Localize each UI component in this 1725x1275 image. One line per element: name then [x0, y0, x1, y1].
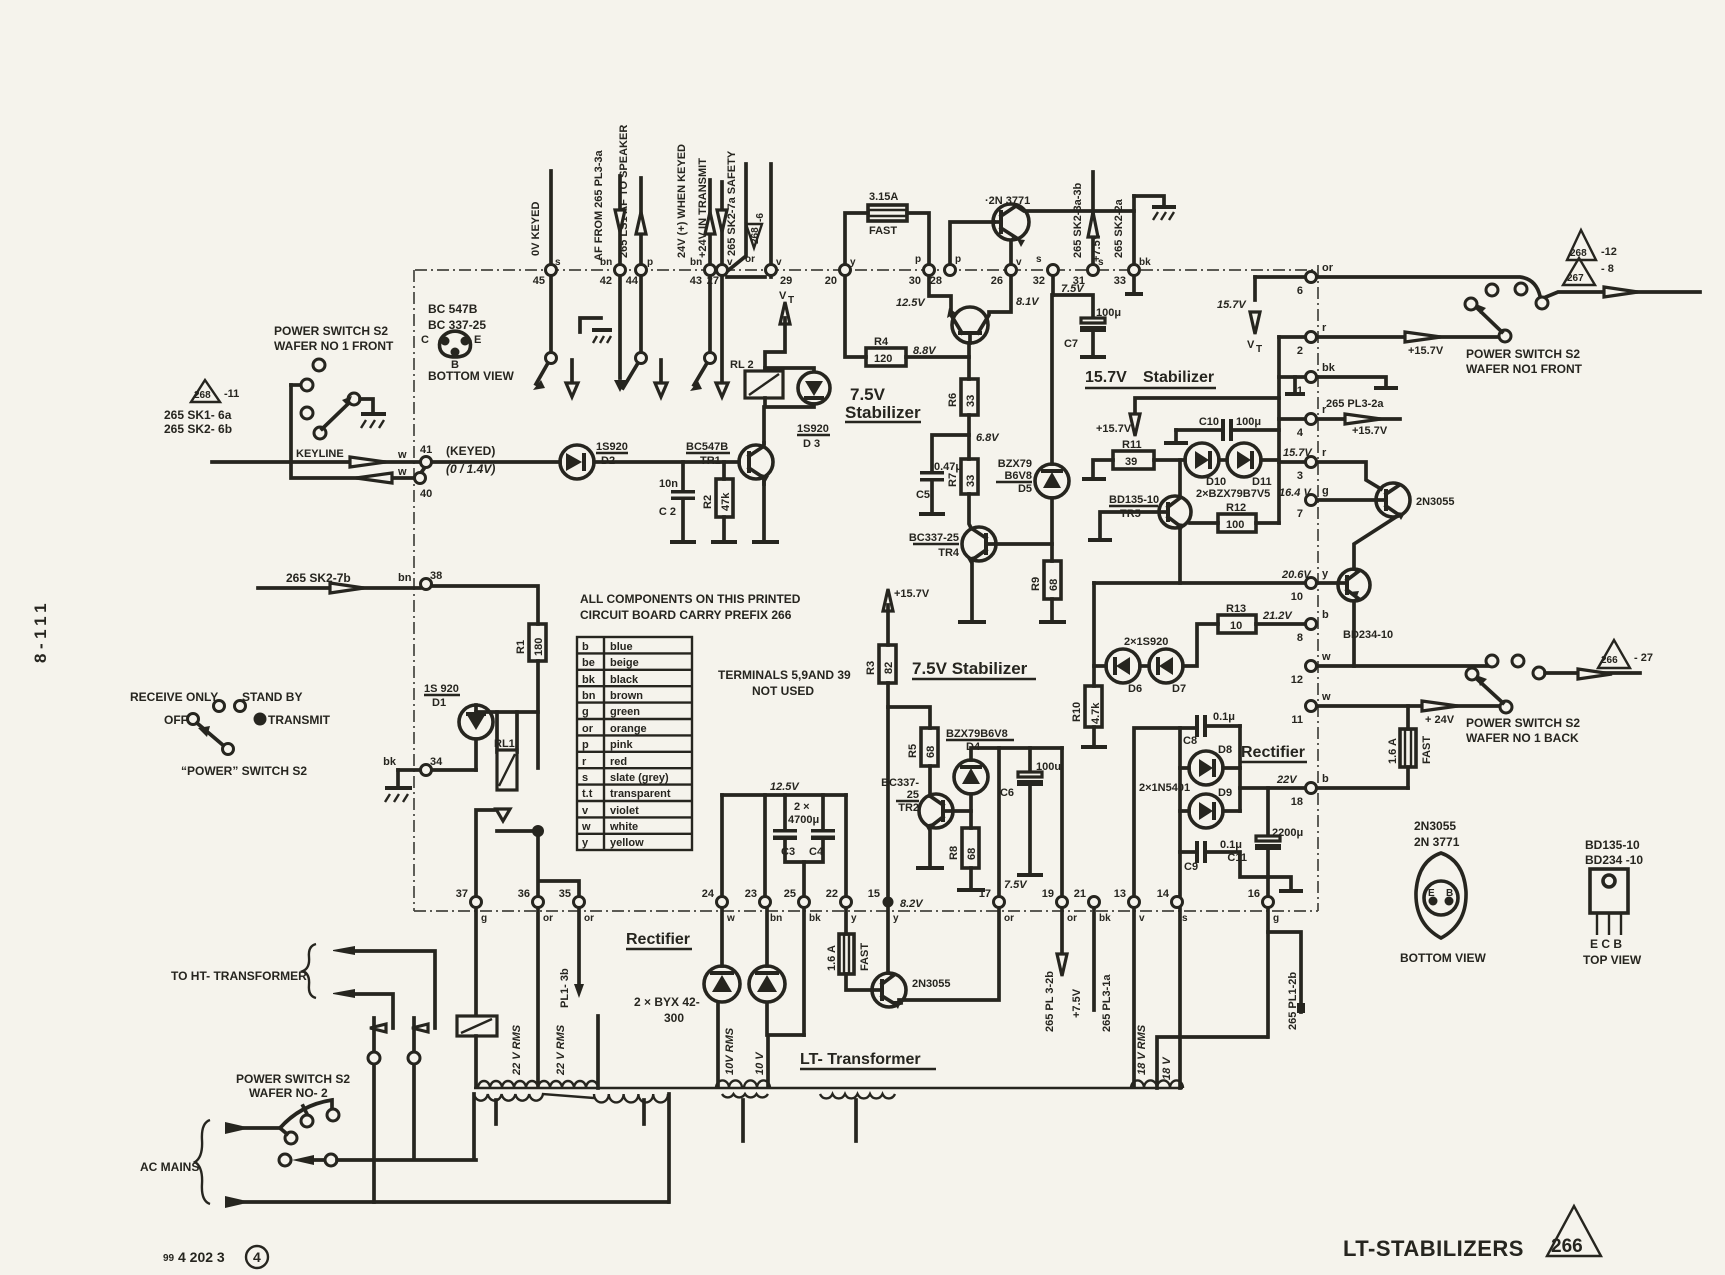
svg-text:R5: R5: [907, 744, 919, 758]
svg-text:E C B: E C B: [1590, 937, 1622, 951]
svg-text:D10: D10: [1206, 476, 1226, 488]
svg-text:bk: bk: [809, 913, 821, 924]
svg-text:3.15A: 3.15A: [869, 191, 898, 203]
svg-text:y: y: [850, 257, 856, 268]
svg-text:WAFER NO 1 BACK: WAFER NO 1 BACK: [1466, 731, 1579, 745]
svg-text:v: v: [582, 805, 589, 817]
svg-text:R1: R1: [515, 640, 527, 654]
svg-text:WAFER NO 1 FRONT: WAFER NO 1 FRONT: [274, 339, 394, 353]
svg-text:R9: R9: [1030, 577, 1042, 591]
svg-text:PL1- 3b: PL1- 3b: [559, 968, 571, 1008]
svg-text:BD135-10: BD135-10: [1109, 494, 1159, 506]
svg-text:7.5V: 7.5V: [1004, 879, 1028, 891]
svg-text:V: V: [1247, 339, 1255, 351]
svg-text:Stabilizer: Stabilizer: [845, 403, 921, 422]
svg-text:R10: R10: [1071, 702, 1083, 722]
svg-text:TR2: TR2: [898, 802, 919, 814]
svg-text:beige: beige: [610, 657, 639, 669]
svg-text:w: w: [1321, 691, 1331, 703]
svg-text:bk: bk: [1139, 257, 1151, 268]
svg-text:26: 26: [991, 275, 1003, 287]
svg-text:265 SK1- 6a: 265 SK1- 6a: [164, 408, 232, 422]
svg-text:265 PL3-1a: 265 PL3-1a: [1101, 974, 1113, 1032]
svg-text:23: 23: [745, 888, 757, 900]
svg-text:265 PL3-2a: 265 PL3-2a: [1326, 398, 1384, 410]
svg-text:C9: C9: [1184, 861, 1198, 873]
svg-text:10: 10: [1291, 591, 1303, 603]
svg-text:B6V8: B6V8: [1004, 470, 1032, 482]
svg-text:r: r: [1322, 322, 1327, 334]
svg-text:265 SK2-2a: 265 SK2-2a: [1113, 198, 1125, 258]
svg-text:or: or: [582, 723, 594, 735]
svg-text:or: or: [745, 254, 755, 265]
svg-text:T: T: [1256, 344, 1262, 355]
svg-text:2N3055: 2N3055: [912, 978, 951, 990]
svg-text:19: 19: [1042, 888, 1054, 900]
svg-text:265 SK2-7b: 265 SK2-7b: [286, 571, 351, 585]
svg-text:2N 3771: 2N 3771: [1414, 835, 1460, 849]
svg-text:C7: C7: [1064, 338, 1078, 350]
svg-text:25: 25: [907, 789, 919, 801]
svg-text:265 PL1-2b: 265 PL1-2b: [1287, 972, 1299, 1030]
svg-text:D11: D11: [1252, 476, 1272, 488]
svg-text:white: white: [609, 821, 638, 833]
svg-text:C10: C10: [1199, 416, 1219, 428]
svg-text:300: 300: [664, 1011, 684, 1025]
svg-text:black: black: [610, 674, 639, 686]
svg-text:v: v: [776, 257, 782, 268]
svg-text:- 8: - 8: [1601, 263, 1614, 275]
svg-text:3: 3: [1297, 470, 1303, 482]
svg-text:POWER SWITCH S2: POWER SWITCH S2: [236, 1072, 350, 1086]
svg-text:20: 20: [825, 275, 837, 287]
svg-text:TR4: TR4: [938, 547, 960, 559]
svg-text:18 V RMS: 18 V RMS: [1136, 1024, 1148, 1075]
svg-text:g: g: [582, 706, 589, 718]
svg-text:brown: brown: [610, 690, 643, 702]
svg-text:17: 17: [979, 888, 991, 900]
svg-text:V: V: [779, 290, 787, 302]
svg-text:266: 266: [1601, 655, 1618, 666]
svg-text:OFF: OFF: [164, 713, 188, 727]
svg-text:TO HT- TRANSFORMER: TO HT- TRANSFORMER: [171, 969, 307, 983]
svg-text:STAND BY: STAND BY: [242, 690, 302, 704]
svg-text:or: or: [1004, 913, 1014, 924]
svg-text:D8: D8: [1218, 744, 1232, 756]
svg-text:+7.5V: +7.5V: [1071, 988, 1083, 1018]
svg-text:32: 32: [1033, 275, 1045, 287]
svg-text:or: or: [584, 913, 594, 924]
svg-text:1S 920: 1S 920: [424, 683, 459, 695]
svg-text:s: s: [1182, 913, 1188, 924]
svg-text:p: p: [647, 257, 653, 268]
svg-text:y: y: [893, 913, 899, 924]
svg-text:2: 2: [1297, 345, 1303, 357]
svg-text:47k: 47k: [720, 492, 732, 511]
svg-text:4.7k: 4.7k: [1090, 702, 1102, 724]
svg-text:68: 68: [1048, 579, 1060, 591]
svg-text:v: v: [727, 257, 733, 268]
svg-text:45: 45: [533, 275, 545, 287]
svg-text:blue: blue: [610, 641, 633, 653]
svg-text:WAFER NO- 2: WAFER NO- 2: [249, 1086, 328, 1100]
svg-text:33: 33: [1114, 275, 1126, 287]
svg-text:0V KEYED: 0V KEYED: [530, 202, 542, 256]
svg-text:or: or: [1322, 262, 1334, 274]
svg-text:BC 547B: BC 547B: [428, 302, 478, 316]
svg-text:red: red: [610, 756, 627, 768]
svg-text:RL1: RL1: [494, 738, 515, 750]
svg-text:violet: violet: [610, 805, 639, 817]
svg-text:w: w: [1321, 651, 1331, 663]
svg-text:- 27: - 27: [1634, 652, 1653, 664]
svg-text:34: 34: [430, 756, 443, 768]
svg-text:40: 40: [420, 488, 432, 500]
svg-text:+15.7V: +15.7V: [1096, 423, 1132, 435]
svg-text:22 V RMS: 22 V RMS: [555, 1024, 567, 1076]
svg-text:2×1S920: 2×1S920: [1124, 636, 1168, 648]
svg-text:0.47μ: 0.47μ: [934, 461, 962, 473]
svg-text:POWER SWITCH S2: POWER SWITCH S2: [274, 324, 388, 338]
svg-text:b: b: [1322, 609, 1329, 621]
svg-text:2×1N5401: 2×1N5401: [1139, 782, 1190, 794]
svg-text:NOT USED: NOT USED: [752, 684, 814, 698]
svg-text:265 PL 3-2b: 265 PL 3-2b: [1044, 971, 1056, 1032]
svg-text:22: 22: [826, 888, 838, 900]
svg-text:1S920: 1S920: [797, 423, 829, 435]
svg-text:R11: R11: [1122, 439, 1142, 451]
svg-text:r: r: [1322, 404, 1327, 416]
svg-text:C11: C11: [1227, 852, 1247, 864]
svg-text:4700μ: 4700μ: [788, 814, 819, 826]
svg-text:g: g: [1322, 485, 1329, 497]
svg-text:31: 31: [1073, 275, 1085, 287]
svg-text:p: p: [582, 739, 589, 751]
svg-text:-11: -11: [224, 388, 239, 400]
svg-text:15.7V: 15.7V: [1217, 299, 1247, 311]
svg-text:268: 268: [194, 390, 211, 401]
svg-text:bk: bk: [582, 674, 596, 686]
svg-text:28: 28: [930, 275, 942, 287]
svg-text:BD135-10: BD135-10: [1585, 838, 1640, 852]
svg-text:R2: R2: [702, 495, 714, 509]
svg-text:C8: C8: [1183, 735, 1197, 747]
svg-text:-12: -12: [1601, 246, 1617, 258]
svg-text:+15.7V: +15.7V: [1352, 425, 1388, 437]
svg-text:Rectifier: Rectifier: [626, 931, 690, 948]
svg-text:44: 44: [626, 275, 639, 287]
svg-text:bk: bk: [383, 756, 397, 768]
svg-text:2 × BYX 42-: 2 × BYX 42-: [634, 995, 700, 1009]
svg-text:1.6 A: 1.6 A: [1387, 738, 1399, 764]
svg-text:21.2V: 21.2V: [1262, 610, 1293, 622]
svg-text:266: 266: [1551, 1236, 1583, 1257]
svg-text:g: g: [1273, 913, 1279, 924]
svg-text:BD234 -10: BD234 -10: [1585, 853, 1643, 867]
svg-text:s: s: [582, 772, 588, 784]
svg-text:T: T: [788, 295, 794, 306]
svg-text:R13: R13: [1226, 603, 1246, 615]
svg-text:ALL COMPONENTS ON THIS PRI: ALL COMPONENTS ON THIS PRINTED: [580, 592, 801, 606]
svg-text:or: or: [1067, 913, 1077, 924]
svg-text:pink: pink: [610, 739, 633, 751]
svg-text:8-111: 8-111: [31, 599, 50, 663]
svg-text:12.5V: 12.5V: [770, 781, 800, 793]
svg-text:FAST: FAST: [859, 943, 871, 971]
svg-text:7.5V Stabilizer: 7.5V Stabilizer: [912, 659, 1028, 678]
svg-text:22V: 22V: [1276, 774, 1298, 786]
svg-text:orange: orange: [610, 723, 647, 735]
svg-text:1.6 A: 1.6 A: [826, 945, 838, 971]
svg-text:4: 4: [1297, 427, 1304, 439]
svg-text:D9: D9: [1218, 787, 1232, 799]
svg-text:+24V IN TRANSMIT: +24V IN TRANSMIT: [697, 158, 709, 258]
svg-text:D1: D1: [432, 697, 446, 709]
svg-text:120: 120: [874, 353, 892, 365]
svg-text:10 V: 10 V: [754, 1051, 766, 1075]
svg-text:CIRCUIT BOARD CARRY PREFIX: CIRCUIT BOARD CARRY PREFIX 266: [580, 608, 792, 622]
svg-text:24: 24: [702, 888, 715, 900]
svg-text:BOTTOM VIEW: BOTTOM VIEW: [428, 369, 514, 383]
svg-text:36: 36: [518, 888, 530, 900]
svg-text:+15.7V: +15.7V: [894, 588, 930, 600]
svg-text:s: s: [555, 257, 561, 268]
svg-text:bn: bn: [582, 690, 596, 702]
svg-text:-6: -6: [755, 213, 766, 222]
svg-text:30: 30: [909, 275, 921, 287]
svg-text:be: be: [582, 657, 595, 669]
svg-text:r: r: [1322, 447, 1327, 459]
svg-text:265 SK2- 6b: 265 SK2- 6b: [164, 422, 232, 436]
svg-text:22 V RMS: 22 V RMS: [511, 1024, 523, 1076]
svg-text:2 ×: 2 ×: [794, 801, 810, 813]
svg-text:y: y: [582, 837, 589, 849]
svg-text:slate (grey): slate (grey): [610, 772, 669, 784]
svg-text:12: 12: [1291, 674, 1303, 686]
svg-text:11: 11: [1291, 714, 1303, 726]
svg-text:16: 16: [1248, 888, 1260, 900]
svg-text:D 3: D 3: [803, 438, 820, 450]
svg-text:R8: R8: [948, 846, 960, 860]
svg-text:bk: bk: [1099, 913, 1111, 924]
svg-text:r: r: [582, 756, 587, 768]
svg-text:y: y: [851, 913, 857, 924]
svg-text:R12: R12: [1226, 502, 1246, 514]
svg-text:13: 13: [1114, 888, 1126, 900]
svg-text:E: E: [1428, 888, 1435, 899]
svg-text:v: v: [1139, 913, 1145, 924]
svg-text:35: 35: [559, 888, 571, 900]
svg-text:D2: D2: [601, 455, 615, 467]
svg-text:BZX79B6V8: BZX79B6V8: [946, 728, 1008, 740]
svg-text:R4: R4: [874, 336, 889, 348]
svg-text:1S920: 1S920: [596, 441, 628, 453]
svg-text:bn: bn: [600, 257, 612, 268]
svg-text:180: 180: [533, 638, 545, 656]
svg-text:s: s: [1036, 254, 1042, 265]
svg-text:R6: R6: [947, 393, 959, 407]
svg-text:68: 68: [925, 746, 937, 758]
svg-text:100u: 100u: [1036, 761, 1061, 773]
svg-text:C5: C5: [916, 489, 930, 501]
svg-text:C6: C6: [1000, 787, 1014, 799]
svg-text:4: 4: [253, 1249, 261, 1265]
svg-text:C: C: [421, 334, 429, 346]
svg-text:D5: D5: [1018, 483, 1032, 495]
svg-text:265 LS1 AF TO SPEAKER: 265 LS1 AF TO SPEAKER: [618, 125, 630, 258]
svg-text:b: b: [1322, 773, 1329, 785]
svg-text:2200μ: 2200μ: [1272, 827, 1303, 839]
svg-text:R7: R7: [947, 473, 959, 487]
svg-text:1: 1: [1297, 385, 1303, 397]
svg-text:yellow: yellow: [610, 837, 644, 849]
svg-text:s: s: [1098, 257, 1104, 268]
svg-text:8.2V: 8.2V: [900, 898, 924, 910]
svg-text:10: 10: [1230, 620, 1242, 632]
svg-text:10n: 10n: [659, 478, 678, 490]
svg-text:BC547B: BC547B: [686, 441, 728, 453]
svg-text:(KEYED): (KEYED): [446, 444, 495, 458]
svg-text:or: or: [543, 913, 553, 924]
svg-text:37: 37: [456, 888, 468, 900]
svg-text:g: g: [481, 913, 487, 924]
svg-text:w: w: [726, 913, 735, 924]
svg-text:TRANSMIT: TRANSMIT: [268, 713, 331, 727]
svg-text:bn: bn: [770, 913, 782, 924]
svg-text:+15.7V: +15.7V: [1408, 345, 1444, 357]
svg-text:green: green: [610, 706, 640, 718]
svg-text:6.8V: 6.8V: [976, 432, 1000, 444]
svg-text:2N3055: 2N3055: [1414, 819, 1456, 833]
svg-text:w: w: [581, 821, 591, 833]
svg-text:100μ: 100μ: [1096, 307, 1121, 319]
svg-text:bn: bn: [398, 572, 412, 584]
svg-text:BC337-: BC337-: [881, 777, 919, 789]
svg-text:15.7V: 15.7V: [1085, 369, 1127, 386]
svg-text:FAST: FAST: [869, 225, 897, 237]
svg-text:AC MAINS: AC MAINS: [140, 1160, 199, 1174]
svg-text:B: B: [1446, 888, 1453, 899]
svg-text:42: 42: [600, 275, 612, 287]
svg-text:25: 25: [784, 888, 796, 900]
svg-text:2N3055: 2N3055: [1416, 496, 1455, 508]
svg-text:82: 82: [883, 662, 895, 674]
svg-text:KEYLINE: KEYLINE: [296, 448, 344, 460]
svg-text:268: 268: [750, 227, 761, 244]
svg-text:E: E: [474, 334, 481, 346]
svg-text:33: 33: [965, 475, 977, 487]
svg-text:43: 43: [690, 275, 702, 287]
svg-text:7.5V: 7.5V: [850, 385, 886, 404]
svg-text:bk: bk: [1322, 362, 1336, 374]
svg-text:+ 24V: + 24V: [1425, 714, 1455, 726]
svg-text:Stabilizer: Stabilizer: [1143, 369, 1214, 386]
svg-text:C 2: C 2: [659, 506, 676, 518]
svg-text:D6: D6: [1128, 683, 1142, 695]
svg-text:27: 27: [707, 275, 719, 287]
svg-text:100μ: 100μ: [1236, 416, 1261, 428]
svg-text:AF FROM 265 PL3-3a: AF FROM 265 PL3-3a: [593, 149, 605, 261]
svg-text:18: 18: [1291, 796, 1303, 808]
svg-text:C3: C3: [781, 846, 795, 858]
svg-text:TERMINALS 5,9AND 39: TERMINALS 5,9AND 39: [718, 668, 851, 682]
svg-text:t.t: t.t: [582, 788, 593, 800]
svg-text:·2N 3771: ·2N 3771: [985, 195, 1030, 207]
svg-text:15: 15: [868, 888, 880, 900]
svg-text:“POWER” SWITCH S2: “POWER” SWITCH S2: [181, 764, 307, 778]
svg-text:TR5: TR5: [1120, 508, 1141, 520]
svg-text:18 V: 18 V: [1161, 1056, 1173, 1080]
svg-text:LT-STABILIZERS: LT-STABILIZERS: [1343, 1236, 1524, 1261]
svg-text:p: p: [915, 254, 921, 265]
svg-text:p: p: [955, 254, 961, 265]
svg-text:265 SK2-7a SAFETY: 265 SK2-7a SAFETY: [726, 150, 738, 256]
svg-text:R3: R3: [865, 661, 877, 675]
svg-text:BZX79: BZX79: [998, 458, 1032, 470]
svg-text:29: 29: [780, 275, 792, 287]
svg-text:POWER SWITCH S2: POWER SWITCH S2: [1466, 716, 1580, 730]
svg-text:100: 100: [1226, 519, 1244, 531]
svg-text:BOTTOM VIEW: BOTTOM VIEW: [1400, 951, 1486, 965]
svg-text:265 SK2-3a-3b: 265 SK2-3a-3b: [1072, 183, 1084, 258]
svg-text:8.1V: 8.1V: [1016, 296, 1040, 308]
svg-text:b: b: [582, 641, 589, 653]
svg-text:41: 41: [420, 444, 432, 456]
svg-text:39: 39: [1125, 456, 1137, 468]
svg-text:LT- Transformer: LT- Transformer: [800, 1051, 921, 1068]
svg-text:8: 8: [1297, 632, 1303, 644]
svg-text:TR1: TR1: [700, 455, 721, 467]
svg-text:2×BZX79B7V5: 2×BZX79B7V5: [1196, 488, 1270, 500]
svg-text:transparent: transparent: [610, 788, 671, 800]
svg-text:BC337-25: BC337-25: [909, 532, 959, 544]
svg-text:24V (+) WHEN KEYED: 24V (+) WHEN KEYED: [676, 144, 688, 258]
svg-text:POWER SWITCH S2: POWER SWITCH S2: [1466, 347, 1580, 361]
svg-text:6: 6: [1297, 285, 1303, 297]
svg-text:21: 21: [1074, 888, 1086, 900]
svg-text:33: 33: [965, 395, 977, 407]
svg-text:RECEIVE ONLY: RECEIVE ONLY: [130, 690, 218, 704]
svg-text:bn: bn: [690, 257, 702, 268]
svg-text:14: 14: [1157, 888, 1170, 900]
svg-text:WAFER NO1 FRONT: WAFER NO1 FRONT: [1466, 362, 1583, 376]
svg-text:10V RMS: 10V RMS: [724, 1027, 736, 1075]
svg-text:w: w: [397, 449, 407, 461]
svg-text:FAST: FAST: [1421, 736, 1433, 764]
svg-text:Rectifier: Rectifier: [1241, 744, 1305, 761]
svg-text:D7: D7: [1172, 683, 1186, 695]
svg-text:267: 267: [1567, 273, 1584, 284]
svg-text:68: 68: [966, 848, 978, 860]
svg-text:0.1μ: 0.1μ: [1220, 839, 1242, 851]
svg-text:RL 2: RL 2: [730, 359, 754, 371]
svg-text:TOP VIEW: TOP VIEW: [1583, 953, 1642, 967]
svg-text:(0 / 1.4V): (0 / 1.4V): [446, 462, 495, 476]
svg-text:99: 99: [163, 1253, 175, 1264]
svg-text:0.1μ: 0.1μ: [1213, 711, 1235, 723]
svg-text:BD234-10: BD234-10: [1343, 629, 1393, 641]
svg-text:v: v: [1016, 257, 1022, 268]
svg-text:4 202 3: 4 202 3: [178, 1249, 225, 1265]
svg-text:12.5V: 12.5V: [896, 297, 926, 309]
svg-text:7: 7: [1297, 508, 1303, 520]
svg-text:y: y: [1322, 568, 1329, 580]
